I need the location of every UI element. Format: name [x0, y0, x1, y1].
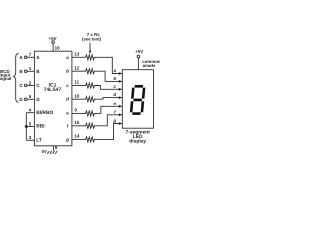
svg-text:10: 10	[74, 93, 80, 98]
svg-text:14: 14	[74, 134, 80, 139]
svg-text:e: e	[114, 101, 117, 106]
svg-text:BI/RBO: BI/RBO	[36, 110, 53, 116]
svg-text:e: e	[66, 111, 69, 116]
svg-text:display: display	[129, 138, 146, 144]
svg-text:+5V: +5V	[135, 49, 143, 54]
svg-text:d: d	[113, 92, 116, 97]
svg-text:LT: LT	[36, 138, 42, 144]
svg-text:signal: signal	[0, 76, 11, 81]
svg-text:12: 12	[74, 65, 80, 70]
svg-text:15: 15	[74, 120, 80, 125]
svg-text:11: 11	[74, 80, 79, 85]
svg-text:RBI: RBI	[36, 124, 45, 130]
svg-text:c: c	[114, 84, 117, 89]
svg-text:13: 13	[74, 51, 80, 56]
svg-text:(see text): (see text)	[82, 36, 102, 41]
svg-text:a: a	[114, 68, 117, 73]
svg-text:+5V: +5V	[49, 36, 57, 41]
svg-text:0V: 0V	[42, 149, 47, 154]
svg-text:d: d	[66, 97, 69, 102]
svg-text:anode: anode	[143, 63, 156, 68]
svg-text:16: 16	[55, 45, 61, 50]
svg-text:a: a	[66, 55, 69, 60]
svg-text:74LS47: 74LS47	[44, 87, 62, 93]
svg-text:b: b	[66, 69, 69, 74]
svg-text:c: c	[66, 83, 69, 88]
svg-text:g: g	[112, 118, 116, 123]
svg-text:g: g	[65, 137, 69, 142]
svg-text:b: b	[113, 76, 116, 81]
